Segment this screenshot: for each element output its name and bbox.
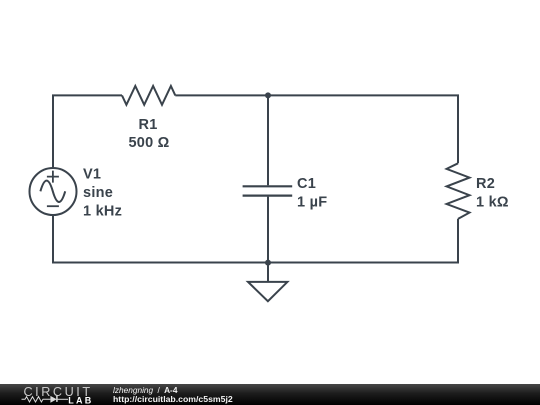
resistor R1 [122,86,175,105]
logo resistor [22,397,51,402]
V1 minus sign [47,205,59,207]
wire: junction down to capacitor C1 top plate [267,95,269,185]
wire: R1 right to top-right corner down to R2 [175,95,458,163]
node: junction dot bottom [265,260,271,266]
svg-text:R1: R1 [138,117,157,133]
wire: R2 bottom to bottom-right corner, bottom wire, up to V1 bottom [53,215,458,263]
logo diode [50,396,56,403]
svg-text:R2: R2 [476,176,495,192]
svg-text:1 kΩ: 1 kΩ [476,195,509,211]
V1 plus sign [47,171,59,183]
svg-text:C1: C1 [297,176,316,192]
credit text [113,386,233,404]
wire: C1 bottom plate down to bottom wire [267,197,269,263]
svg-text:1 kHz: 1 kHz [83,204,122,220]
svg-text:LAB: LAB [68,396,93,405]
resistor R2 [447,163,470,219]
CircuitLab logo [0,384,100,405]
footer bar [0,384,540,405]
voltage source V1 [30,168,77,215]
svg-text:sine: sine [83,185,113,201]
wire: top-left from V1 top up and right to R1 [53,95,122,168]
svg-text:1 µF: 1 µF [297,195,327,211]
node: junction dot top [265,92,271,98]
svg-text:V1: V1 [83,167,101,183]
svg-text:500 Ω: 500 Ω [128,135,169,151]
capacitor C1 plates [243,186,293,195]
wire: ground stub [267,263,269,282]
ground symbol [248,282,287,301]
V1 sine wave [40,181,65,202]
